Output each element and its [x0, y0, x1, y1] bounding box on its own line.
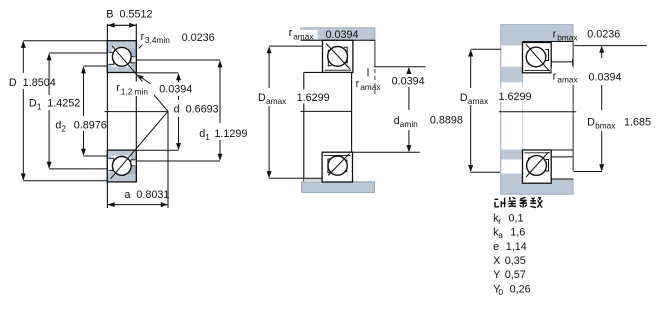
svg-text:a: a — [498, 230, 503, 240]
svg-text:2: 2 — [61, 123, 66, 133]
svg-text:r: r — [141, 31, 145, 43]
abutment edge line (middle right) — [374, 40, 376, 67]
row k_a 1,6 — [493, 227, 525, 240]
svg-text:D: D — [587, 116, 595, 128]
dimension a — [107, 111, 169, 208]
svg-text:1: 1 — [205, 132, 210, 142]
svg-text:D: D — [258, 92, 266, 104]
dimension B line — [107, 23, 136, 28]
housing bore surface line (middle fig) — [301, 39, 375, 41]
svg-text:0.0394: 0.0394 — [589, 71, 622, 83]
axis centerline (right fig) — [499, 111, 576, 113]
section top edge extension to shoulder line — [551, 149, 573, 151]
ball (middle bottom) — [328, 156, 347, 175]
svg-text:bmax: bmax — [595, 120, 616, 130]
svg-text:1.6299: 1.6299 — [499, 91, 532, 103]
svg-text:0.0394: 0.0394 — [326, 29, 359, 41]
svg-text:Y: Y — [493, 269, 500, 281]
svg-text:1: 1 — [37, 101, 42, 111]
svg-text:0,1: 0,1 — [509, 212, 524, 224]
label d1 1.1299 — [199, 128, 247, 142]
svg-text:r: r — [553, 70, 557, 82]
bottom section outer ring (blue) — [107, 166, 136, 182]
housing bore surface line (right fig) — [523, 41, 574, 43]
axis centerline — [105, 111, 169, 113]
svg-text:1.6299: 1.6299 — [297, 92, 330, 104]
abutment bracket (blue silhouette) — [501, 25, 573, 195]
svg-text:0,57: 0,57 — [505, 269, 526, 281]
top section race pocket lines — [109, 52, 136, 64]
bottom section outline — [107, 150, 136, 182]
svg-text:0.0394: 0.0394 — [159, 84, 192, 96]
contact line through bottom ball — [111, 111, 169, 179]
svg-text:0.0236: 0.0236 — [182, 32, 215, 44]
svg-text:amax: amax — [468, 96, 489, 106]
svg-text:r: r — [289, 27, 293, 39]
white gaps in abutment strip — [501, 46, 522, 174]
ball (bottom) — [112, 157, 131, 176]
dimension d1 — [136, 60, 220, 161]
svg-text:amax: amax — [557, 75, 578, 85]
label Dbmax 1.685 — [587, 116, 651, 130]
top section outer ring (blue) — [107, 41, 136, 73]
dimension d (bore) — [136, 73, 178, 150]
bearing right face line — [135, 24, 137, 182]
svg-text:0.0394: 0.0394 — [392, 75, 425, 87]
bottom section (right fig) — [523, 150, 552, 183]
contact line through top ball to axis point — [112, 46, 168, 112]
ball (top) — [112, 47, 131, 66]
row Y 0,57 — [493, 269, 526, 281]
label da min 0.8898 — [394, 115, 463, 129]
svg-text:d 0.6693: d 0.6693 — [174, 104, 219, 116]
row X 0,35 — [493, 255, 526, 267]
contact diagonal (right bottom) — [526, 152, 549, 177]
label r_amax (middle right) with leader — [356, 68, 425, 92]
top section inner ring (blue) — [107, 63, 136, 73]
svg-text:1.4252: 1.4252 — [47, 97, 80, 109]
svg-text:D: D — [460, 92, 468, 104]
svg-text:D: D — [29, 97, 37, 109]
contact diagonal (middle bottom) — [328, 154, 350, 176]
shaft fillet wedge — [304, 179, 322, 183]
label r3,4min 0.0236 with leader — [139, 31, 215, 49]
bottom section inner ring (blue) — [107, 150, 136, 182]
dimension Db max — [574, 46, 647, 172]
label r1,2 min 0.0394 with leader arrow — [116, 75, 193, 97]
row Y0 0,26 — [493, 283, 531, 296]
spacer surface line (right fig, bottom) — [551, 178, 573, 180]
label Damax 1.6299 (right fig) — [460, 89, 533, 106]
svg-text:1.685: 1.685 — [624, 116, 651, 128]
dimension Da max (right fig) — [471, 49, 501, 172]
svg-text:r: r — [116, 82, 120, 94]
ball (right top) — [526, 47, 546, 67]
axis centerline (middle fig) — [301, 110, 352, 112]
row e 1,14 — [493, 241, 527, 253]
svg-text:0: 0 — [499, 287, 504, 297]
svg-text:0.0236: 0.0236 — [587, 28, 620, 40]
bottom section race pocket lines — [109, 158, 136, 170]
right face line (middle fig) — [351, 40, 353, 182]
label D1 1.4252 — [29, 97, 80, 111]
svg-text:r: r — [498, 216, 501, 226]
svg-text:1.1299: 1.1299 — [214, 128, 247, 140]
label d2 0.8976 — [55, 119, 106, 133]
svg-text:B 0.5512: B 0.5512 — [106, 9, 152, 21]
shaft shoulder outline — [304, 72, 323, 182]
svg-text:0.8898: 0.8898 — [430, 115, 463, 127]
dimension D — [23, 41, 107, 181]
bottom section (middle fig) — [322, 152, 352, 182]
svg-text:amin: amin — [400, 119, 418, 129]
ball (right bottom) — [527, 156, 547, 176]
ball (middle top) — [328, 47, 348, 67]
svg-text:0,35: 0,35 — [505, 255, 526, 267]
label r_amax 0.0394 (right fig) — [552, 68, 622, 86]
svg-text:1,2 min: 1,2 min — [121, 87, 149, 97]
bearing left face line — [106, 24, 108, 208]
svg-text:0.8976: 0.8976 — [74, 119, 107, 131]
dimension da min — [353, 67, 426, 153]
svg-text:1,6: 1,6 — [510, 227, 525, 239]
housing shoulder band (top, blue) — [301, 28, 375, 41]
dimension D1 — [49, 53, 107, 169]
label r_bmax 0.0236 — [553, 28, 621, 42]
svg-text:r: r — [356, 78, 360, 90]
svg-text:1,14: 1,14 — [506, 241, 527, 253]
svg-text:X: X — [493, 255, 500, 267]
svg-text:r: r — [553, 28, 557, 40]
row k_r 0,1 — [493, 212, 523, 225]
dimension d2 — [84, 66, 108, 156]
svg-text:0,26: 0,26 — [510, 283, 531, 295]
title 计算系数 (drawn glyphs) — [495, 197, 543, 207]
svg-text:amax: amax — [360, 82, 381, 92]
dimension Da max — [269, 46, 322, 178]
svg-text:3,4min: 3,4min — [145, 35, 170, 45]
shaft surface line (middle fig) — [302, 181, 375, 183]
top section (middle fig) — [323, 40, 353, 72]
label Damax 1.6299 — [258, 90, 332, 106]
shaft band (bottom, blue) — [302, 182, 375, 193]
contact diagonal (middle top) — [326, 43, 350, 69]
r_amax extension and tick (right fig) — [551, 58, 573, 156]
contact diagonal (right top) — [526, 44, 550, 71]
svg-text:e: e — [493, 241, 499, 253]
label box r_amax (top) — [289, 27, 359, 41]
svg-text:bmax: bmax — [557, 32, 578, 42]
top section (right fig) — [523, 43, 552, 73]
svg-text:a 0.8031: a 0.8031 — [124, 189, 169, 201]
svg-text:amax: amax — [266, 96, 287, 106]
top section outline — [107, 41, 136, 73]
Db shoulder edge vertical — [572, 42, 574, 172]
